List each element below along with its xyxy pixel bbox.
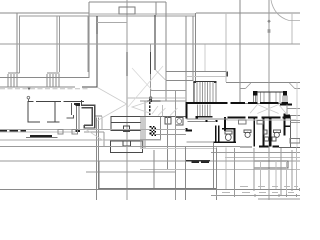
house left wall — [27, 101, 29, 123]
annex horizontal y134.5 — [156, 134, 186, 136]
terrace hatch left — [253, 95, 257, 104]
node level marker — [28, 88, 31, 91]
roof diagonal apartment — [250, 105, 286, 114]
wire horizontal y77.5 — [0, 77, 89, 79]
fixtures cell B — [257, 121, 263, 124]
dark seg y160.5 — [186, 160, 210, 162]
site line y131.8 — [0, 131, 75, 133]
party wall hatch — [149, 102, 151, 116]
wire horizontal y71.5 — [166, 71, 226, 73]
roof long diagonal A — [128, 66, 163, 107]
grid vertical x269 — [268, 0, 270, 200]
terrace stalls — [261, 93, 281, 104]
kitchen island 1 mid shelf — [111, 122, 141, 124]
corner conduit — [99, 161, 216, 189]
pool rect — [254, 161, 288, 168]
terrace planter right block — [283, 91, 287, 95]
kitchen handle 1 — [124, 126, 130, 132]
site line y160.8 — [0, 160, 300, 162]
wc toilet — [225, 131, 232, 134]
right edge sill marks — [290, 120, 300, 122]
wire vertical x226 — [225, 13, 227, 82]
annex vertical x167 — [167, 116, 169, 169]
cell wall x254 — [253, 118, 255, 147]
house interior wall — [54, 102, 56, 123]
house corner stem — [27, 99, 29, 101]
hall room bottom line — [186, 141, 213, 143]
dashed bar y162 — [192, 161, 210, 163]
patio squares — [58, 130, 63, 134]
hall grid y90 — [150, 89, 186, 91]
verticals bottom band — [154, 142, 216, 200]
terrace chamfer left — [240, 87, 246, 89]
terrace hatch right — [283, 95, 287, 104]
wire top boundary left — [0, 12, 89, 14]
dim line y195.3 — [211, 194, 300, 196]
wc bottom wall — [214, 141, 237, 143]
court corner line — [84, 132, 104, 146]
stair top beam — [194, 81, 217, 83]
counter edge x102 — [101, 116, 103, 129]
annex horizontal y139.5 — [140, 139, 161, 141]
wire horizontal y80.5 — [166, 80, 194, 82]
terrace chamfer diagonals — [246, 83, 295, 88]
site line y172 — [86, 171, 175, 173]
site line y146.3 — [0, 145, 240, 147]
basins pair — [265, 137, 269, 141]
wire vertical x89 — [88, 2, 90, 78]
dim line y198.8 — [258, 198, 300, 200]
wire horizontal y22.5 — [97, 22, 127, 24]
wall bar y104 — [280, 103, 292, 105]
annex vertical x162 — [161, 105, 163, 116]
bath wall y115.5 — [284, 115, 290, 117]
terrace rail — [257, 91, 283, 93]
dim line y152.3 — [211, 151, 300, 153]
node circle marker — [27, 96, 30, 99]
cell wall x270.4 — [269, 118, 271, 147]
apartment top wall — [185, 102, 288, 104]
grid vertical x175 — [174, 90, 176, 200]
stair treads lower — [198, 104, 211, 116]
wc right wall — [234, 128, 236, 142]
kitchen island 2 — [110, 141, 142, 152]
wire double header — [89, 13, 195, 15]
wire vertical x156 top — [155, 2, 157, 15]
site line y169.5 — [140, 169, 300, 171]
node tick x227 — [226, 72, 228, 77]
house top wall — [28, 101, 84, 103]
stair landing wall — [196, 116, 212, 118]
checker shaft — [150, 126, 157, 136]
annex vertical x160 — [160, 116, 162, 139]
grid vertical x127 — [126, 0, 128, 200]
wall dark segment x127 — [126, 52, 128, 76]
wall hatch fan right — [47, 73, 60, 87]
door arc top right — [271, 0, 300, 21]
roof diagonal right — [132, 101, 151, 114]
dim line y157.6 — [225, 157, 300, 159]
terrace chamfer right — [294, 87, 300, 89]
house dark fixture — [74, 103, 78, 105]
sink fixture — [165, 118, 171, 124]
house interior jamb — [67, 103, 74, 118]
top right room lines — [287, 104, 300, 115]
door swing diagonals annex — [152, 106, 178, 116]
wc top wall — [222, 128, 235, 130]
dark terrace bar — [30, 135, 52, 137]
wall dark vertical x97 — [96, 16, 98, 87]
house bottom wall segs — [28, 121, 60, 123]
node column dot — [150, 97, 152, 99]
annex vertical pair x141 — [141, 116, 143, 148]
wire vertical x240 — [239, 0, 241, 104]
wire horizontal y44 — [0, 43, 300, 45]
wire vertical x292 top — [291, 13, 293, 44]
site line y189.3 — [0, 188, 300, 190]
wire horizontal y76.5 — [186, 76, 226, 78]
annex floor wall y116 — [141, 115, 186, 117]
cells top wall thick — [228, 117, 290, 119]
stair treads upper — [195, 82, 213, 104]
apartment bottom cells — [259, 145, 279, 147]
annex vertical x145 — [144, 101, 146, 148]
site line y129.8 — [0, 128, 186, 130]
wire top boundary right — [196, 12, 300, 14]
wc toilet bowl — [225, 134, 231, 140]
room box2 — [60, 16, 89, 72]
site line y148.4 — [140, 148, 216, 150]
wire vertical x205 — [204, 44, 206, 72]
landing lines — [187, 118, 216, 120]
wing stub line — [96, 115, 103, 117]
roof long diagonal B — [132, 68, 152, 90]
wc fixture bowl — [177, 119, 182, 124]
house pier block top — [76, 103, 80, 106]
column block party wall — [149, 99, 152, 102]
wire vertical pair x193-195 — [192, 16, 194, 81]
stair side walls — [194, 82, 217, 104]
wire vertical x186 — [185, 16, 187, 102]
sink rects upper — [264, 130, 267, 134]
node square marker — [268, 29, 271, 33]
wire horizontal y82.5 right — [226, 82, 300, 84]
dim ticks y195 — [216, 194, 296, 197]
site line y140 — [0, 139, 161, 141]
cell door heads — [227, 119, 297, 121]
roof box top — [119, 7, 135, 14]
wire vertical x166 — [165, 2, 167, 101]
wire vertical x17.5 — [16, 13, 18, 73]
cell wall x284.6 — [284, 113, 286, 135]
annex top wall — [140, 100, 186, 102]
datum dashed line y88.8 — [0, 88, 89, 90]
apartment right wall — [289, 116, 291, 148]
apartment bottom wall left — [185, 129, 192, 131]
house wing wall outer C — [82, 100, 95, 128]
roof diagonal left — [98, 88, 127, 121]
flare diagonal at bar end — [156, 70, 167, 81]
cell wall x263.5 — [263, 118, 265, 147]
court diagonal — [84, 129, 104, 142]
wall horizontal y87 — [0, 86, 75, 88]
toilet bowls cells — [245, 132, 250, 137]
room box1 — [20, 16, 58, 73]
terrace planter left block — [253, 91, 257, 95]
wc fixture — [176, 118, 184, 125]
corridor wall pair — [215, 126, 217, 143]
grid vertical x150.5 — [150, 44, 152, 101]
wall hatch fan left — [8, 73, 20, 87]
wire top bay line — [89, 1, 166, 3]
house left pier pair — [77, 104, 80, 132]
walk edge y137.5 — [26, 137, 58, 139]
node diamond marker — [267, 19, 270, 23]
corridor jog wall x225 — [224, 117, 226, 131]
fixtures cell C — [290, 138, 300, 143]
house wing wall inner C — [82, 108, 93, 125]
kitchen island 1 — [111, 117, 141, 131]
dim text smudges — [240, 186, 298, 188]
house pier block bottom — [76, 129, 80, 132]
annex grid line y98 — [127, 97, 186, 99]
fixtures cell A — [239, 120, 247, 124]
wire horizontal y103.5 — [240, 103, 280, 105]
apartment left wall — [185, 102, 187, 118]
dim ticks y189 — [234, 188, 299, 191]
kitchen handle 2 — [123, 141, 131, 146]
wire vertical pair x96-98 — [96, 117, 98, 200]
hall thin y119 — [215, 118, 228, 120]
wall dark bar x155 — [154, 15, 156, 70]
dashed retaining wall left — [0, 130, 26, 132]
